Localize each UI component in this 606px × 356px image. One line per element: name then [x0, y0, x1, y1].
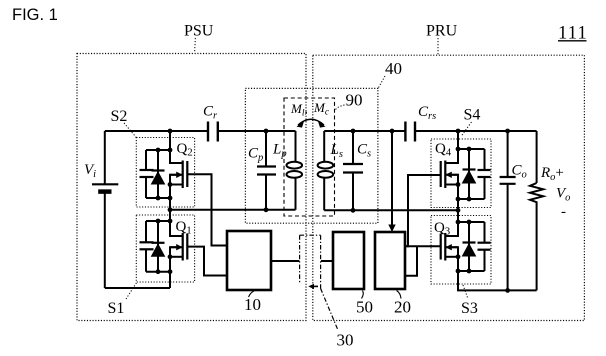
Q1 leg lower — [170, 247, 183, 288]
inductor Ls — [323, 131, 325, 162]
transistor Q3 — [444, 233, 446, 261]
bottom rail left (PSU) — [105, 287, 170, 289]
arrow at boundary 30 — [312, 285, 318, 287]
wire Q4 gate to block 20 — [405, 175, 441, 246]
svg-text:Mc: Mc — [313, 100, 330, 118]
Q3 body diode — [468, 222, 470, 271]
svg-text:Vi: Vi — [84, 162, 96, 180]
svg-text:Crs: Crs — [418, 104, 436, 122]
Q2 body diode — [157, 150, 159, 198]
mutual coupling arrow — [298, 119, 324, 125]
svg-text:10: 10 — [244, 295, 261, 314]
svg-text:Ls: Ls — [330, 142, 343, 160]
Q3 leg lower — [446, 247, 537, 290]
svg-text:-: - — [561, 204, 566, 220]
svg-text:50: 50 — [356, 298, 373, 317]
svg-text:FIG. 1: FIG. 1 — [12, 6, 58, 24]
wire Q1 gate to block 10 — [187, 247, 227, 276]
svg-text:Ml,: Ml, — [290, 101, 308, 119]
Q3 cell bottom branch — [458, 270, 485, 272]
leader 30 — [321, 289, 338, 330]
Q4 body diode — [468, 149, 470, 199]
Q1 snubber capacitor — [145, 221, 147, 242]
svg-text:Cs: Cs — [357, 142, 371, 160]
midpoint rail (PRU tank bottom) — [324, 209, 458, 211]
leader PSU — [194, 38, 197, 53]
svg-text:Lp: Lp — [272, 142, 287, 160]
svg-text:30: 30 — [337, 331, 354, 350]
Q4 cell top branch — [458, 148, 485, 150]
capacitor Cp — [265, 131, 267, 167]
capacitor Cs — [352, 131, 354, 164]
svg-text:S2: S2 — [111, 108, 128, 125]
PSU boundary box — [77, 54, 306, 321]
block 20 — [375, 232, 405, 289]
transistor Q1 — [182, 233, 184, 261]
wire node to block 20 with arrow — [391, 131, 393, 226]
S4 cell box — [431, 139, 491, 208]
svg-text:Vo: Vo — [556, 186, 570, 204]
Q1 body diode — [157, 221, 159, 272]
svg-text:S3: S3 — [461, 300, 478, 317]
transistor Q4 — [444, 161, 446, 189]
PRU boundary box — [313, 55, 585, 320]
resonant tank box 40 — [245, 88, 378, 223]
svg-text:Co: Co — [512, 163, 527, 181]
Q2 cell top branch — [146, 149, 170, 151]
svg-text:20: 20 — [394, 298, 411, 317]
Q3 leg upper — [446, 210, 459, 236]
leader PRU — [437, 38, 439, 55]
Q2 leg upper — [170, 131, 183, 163]
leader 90 — [335, 105, 345, 111]
leader 10 — [249, 291, 255, 297]
Q1 leg upper — [170, 210, 183, 236]
Q3 snubber capacitor — [484, 222, 486, 243]
wire boundary to block 50 — [321, 260, 333, 262]
load right vertical wires — [536, 131, 538, 183]
svg-text:Ro+: Ro+ — [540, 165, 564, 183]
S3 cell box — [431, 216, 491, 285]
leader 40 — [378, 76, 385, 88]
inductor Lp — [295, 131, 297, 162]
transistor Q2 — [182, 161, 184, 189]
svg-text:Q1: Q1 — [176, 219, 192, 237]
S1 cell box — [136, 215, 194, 282]
leader S2 — [124, 123, 136, 138]
wire Vi left vertical — [104, 131, 106, 184]
battery Vi — [92, 183, 118, 185]
wire Q3 gate to block 20 — [405, 245, 441, 247]
Q1 cell bottom branch — [146, 271, 170, 273]
svg-text:Q3: Q3 — [434, 220, 450, 238]
Q3 cell top branch — [458, 221, 485, 223]
svg-text:PSU: PSU — [184, 23, 214, 40]
Q1 cell top branch — [146, 220, 170, 222]
svg-text:40: 40 — [385, 59, 402, 78]
block 10 — [227, 231, 271, 290]
S2 cell box — [136, 138, 194, 208]
boundary 30 dash-dot lines — [300, 234, 321, 236]
node dots Q3 — [456, 220, 461, 225]
Q4 leg lower — [446, 175, 459, 211]
coupling box 90 — [284, 98, 335, 216]
capacitor Co — [507, 131, 509, 177]
wire Q2 gate to block 10 — [187, 174, 227, 245]
leader 20 — [397, 291, 402, 299]
top rail right (PRU) — [324, 130, 405, 132]
svg-text:Q4: Q4 — [435, 141, 452, 159]
Q4 snubber capacitor — [484, 149, 486, 170]
svg-text:90: 90 — [346, 91, 363, 110]
leader S1 — [126, 282, 137, 299]
Q4 leg upper — [446, 131, 459, 163]
leader S4 — [461, 122, 472, 137]
node dots Q4 — [456, 129, 461, 134]
top rail left (PSU) — [105, 130, 208, 132]
block 50 — [333, 232, 364, 289]
wire block 10 to boundary — [271, 260, 299, 262]
capacitor Cr — [207, 122, 209, 142]
svg-text:Q2: Q2 — [177, 141, 193, 159]
svg-text:Cr: Cr — [203, 104, 218, 122]
node dots Q1 — [168, 219, 173, 224]
capacitor Crs — [404, 122, 406, 142]
Q2 leg lower — [170, 175, 183, 210]
svg-text:S4: S4 — [464, 107, 481, 124]
svg-text:S1: S1 — [108, 300, 125, 317]
resistor Ro — [530, 183, 543, 204]
node dots Q2 — [168, 129, 173, 134]
Q2 snubber capacitor — [145, 150, 147, 170]
svg-text:PRU: PRU — [426, 23, 458, 40]
leader S3 — [463, 285, 468, 299]
midpoint rail (PSU tank bottom) — [170, 209, 296, 211]
Q2 cell bottom branch — [146, 197, 170, 199]
svg-text:Cp: Cp — [248, 146, 263, 164]
leader 50 — [362, 291, 364, 299]
Q4 cell bottom branch — [458, 198, 485, 200]
